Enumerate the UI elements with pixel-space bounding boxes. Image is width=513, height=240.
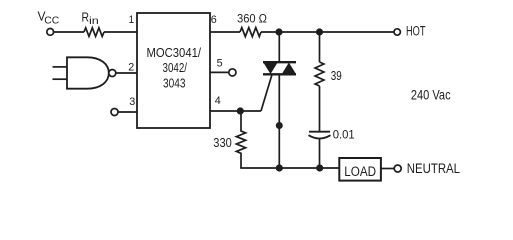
pin 5 label xyxy=(217,58,223,70)
svg-text:39: 39 xyxy=(331,69,342,83)
svg-text:240 Vac: 240 Vac xyxy=(411,87,451,103)
net 240 Vac label xyxy=(411,87,451,103)
resistor 360 ohm xyxy=(240,28,261,37)
node HOT label xyxy=(406,24,426,39)
wire bubble to pin 2 xyxy=(116,72,137,74)
terminal pin 3 xyxy=(111,109,118,116)
node NEUTRAL label xyxy=(407,160,460,176)
terminal HOT xyxy=(394,29,400,35)
svg-text:CC: CC xyxy=(44,16,60,27)
svg-text:2: 2 xyxy=(128,62,134,74)
triac Q1 top bar xyxy=(263,61,296,63)
op-amp U1 MOC3041 box xyxy=(137,13,210,128)
triac Q1 gate lead xyxy=(261,75,272,112)
junction node D xyxy=(276,122,283,129)
svg-text:LOAD: LOAD xyxy=(344,164,376,179)
resistor Rin label xyxy=(82,10,100,27)
svg-text:HOT: HOT xyxy=(406,24,426,39)
wire VCC to Rin xyxy=(54,31,84,33)
resistor 330 label xyxy=(213,136,232,150)
capacitor C1 value label xyxy=(333,128,355,142)
junction node F xyxy=(316,164,323,171)
svg-text:0.01: 0.01 xyxy=(333,128,355,142)
svg-text:in: in xyxy=(89,16,99,27)
triac Q1 top lead xyxy=(278,32,280,62)
svg-text:3042/: 3042/ xyxy=(163,61,188,75)
triac Q1 right triangle xyxy=(282,63,296,75)
LOAD box xyxy=(339,158,381,181)
terminal NEUTRAL xyxy=(394,165,401,172)
junction node E xyxy=(276,164,283,171)
wire 360 resistor to HOT xyxy=(261,31,394,33)
wire node B down to 39 resistor xyxy=(319,32,321,62)
resistor Rin xyxy=(84,28,104,37)
triac Q1 bottom bar xyxy=(263,73,296,75)
wire pin 5 xyxy=(210,71,229,73)
NAND gate U2 body xyxy=(67,57,109,88)
svg-text:360 Ω: 360 Ω xyxy=(237,12,267,26)
terminal VCC xyxy=(47,29,54,36)
wire pin 6 to 360 resistor xyxy=(210,31,240,33)
svg-text:1: 1 xyxy=(129,14,135,26)
wire 39 resistor to capacitor xyxy=(319,86,321,132)
pin 6 label xyxy=(211,14,217,26)
svg-text:NEUTRAL: NEUTRAL xyxy=(407,160,460,176)
node VCC label xyxy=(38,10,60,27)
wire LOAD to NEUTRAL xyxy=(381,168,394,170)
svg-text:4: 4 xyxy=(215,95,221,107)
terminal pin 5 xyxy=(229,69,236,76)
triac Q1 bottom lead xyxy=(278,75,280,169)
svg-text:R: R xyxy=(82,10,90,24)
NAND gate U2 input stubs xyxy=(53,66,68,68)
pin 1 label xyxy=(129,14,135,26)
svg-text:MOC3041/: MOC3041/ xyxy=(147,46,202,60)
resistor 360 ohm label xyxy=(237,12,267,26)
pin 4 label xyxy=(215,95,221,107)
wire pin 3 xyxy=(118,111,137,113)
wire bottom rail xyxy=(240,167,339,169)
svg-text:3043: 3043 xyxy=(163,76,186,90)
junction node C xyxy=(237,107,244,114)
svg-text:6: 6 xyxy=(211,14,217,26)
svg-text:5: 5 xyxy=(217,58,223,70)
svg-text:330: 330 xyxy=(213,136,232,150)
resistor 330 xyxy=(236,111,245,168)
wire pin 4 to gate elbow xyxy=(210,110,261,112)
pin 3 label xyxy=(129,96,135,108)
junction node A xyxy=(275,28,282,35)
resistor 39 xyxy=(315,62,324,86)
capacitor C1 bottom plate xyxy=(309,135,331,138)
wire Rin to pin 1 xyxy=(104,31,137,33)
NAND gate U2 output bubble xyxy=(109,70,116,77)
wire capacitor to bottom rail xyxy=(319,139,321,168)
resistor 39 label xyxy=(331,69,342,83)
capacitor C1 top plate xyxy=(309,131,330,133)
svg-text:3: 3 xyxy=(129,96,135,108)
junction node B xyxy=(316,28,323,35)
pin 2 label xyxy=(128,62,134,74)
triac Q1 left triangle xyxy=(263,63,277,75)
